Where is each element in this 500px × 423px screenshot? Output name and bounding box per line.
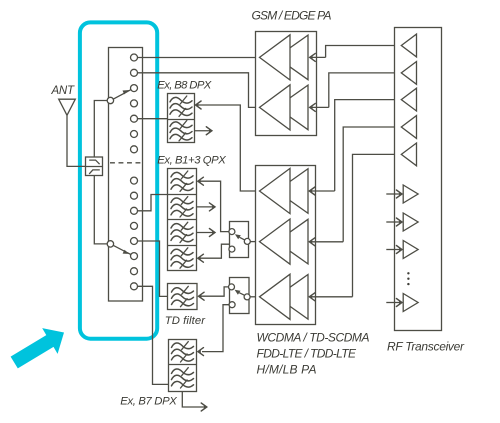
SPDT2 pole contact — [244, 294, 250, 300]
GSM PA box — [256, 32, 317, 136]
cyan highlight arrow — [11, 328, 64, 368]
SPDT1 arm — [235, 234, 245, 240]
svg-text:TD filter: TD filter — [165, 315, 207, 327]
B3 RX output arrow — [196, 229, 215, 237]
wire WCDMA amp1 output to B8 TX — [195, 101, 260, 191]
transceiver RX amp 3 — [386, 241, 418, 259]
lower switch arm — [113, 245, 131, 254]
label WCDMA PA — [257, 331, 370, 377]
wire port1 to GSM amp1 output — [137, 57, 259, 59]
SPDT1 throw2 contact — [229, 246, 235, 252]
diplexer box — [86, 157, 103, 176]
duplexer B8 DPX — [168, 94, 195, 143]
wire SPDT2 throw1 to TD filter — [198, 287, 229, 300]
duplexer B7 DPX — [169, 340, 197, 392]
wire SPDT2 pole to WCDMA amp3 — [250, 296, 260, 298]
transceiver TX buffer 2 — [401, 62, 416, 85]
cyan highlight rounded box around antenna switch — [80, 22, 157, 338]
transceiver RX amp 2 — [386, 213, 418, 231]
WCDMA amp3 input arrow — [309, 293, 353, 301]
B1 RX output arrow — [196, 203, 215, 211]
GSM amp2 — [260, 85, 309, 130]
wire SPDT1 common to B3 TX — [197, 244, 244, 262]
wire transceiver TX2 to GSM amp2 — [329, 73, 402, 108]
WCDMA amp1 input arrow — [309, 187, 335, 195]
switch ports upper — [131, 54, 138, 153]
svg-text:WCDMA / TD-SCDMA: WCDMA / TD-SCDMA — [257, 331, 370, 345]
WCDMA amp2 input arrow — [309, 238, 343, 246]
SPDT switch 1 box — [230, 222, 249, 258]
antenna ANT — [59, 99, 76, 115]
wire port12 to TD filter — [137, 241, 167, 296]
wire diplexer bottom to lower switch pole — [94, 176, 107, 244]
TD filter box — [168, 284, 198, 310]
quadplexer B1+3 QPX — [168, 169, 197, 271]
dashed divider band separator — [110, 162, 142, 164]
ellipsis dots — [407, 272, 409, 285]
wire antenna to diplexer — [67, 116, 85, 167]
WCDMA amp1 — [260, 168, 309, 213]
wire transceiver TX3 to WCDMA amp1 — [335, 100, 402, 191]
RF transceiver box — [395, 28, 442, 331]
wire port5 to B8 DPX common — [137, 118, 167, 120]
WCDMA amp2 — [260, 219, 309, 264]
upper switch arm pivot — [107, 97, 113, 103]
SPDT2 throw2 contact — [229, 302, 235, 308]
svg-text:GSM / EDGE PA: GSM / EDGE PA — [252, 9, 332, 23]
svg-text:H/M/LB PA: H/M/LB PA — [257, 363, 317, 377]
wire SPDT2 throw2 to B7 TX — [202, 305, 229, 352]
svg-text:Ex, B8 DPX: Ex, B8 DPX — [157, 80, 211, 92]
wire transceiver TX5 to WCDMA amp3 — [353, 154, 402, 296]
GSM amp1 input arrow — [309, 53, 325, 61]
wire SPDT1 throw1 to B1 TX — [197, 177, 229, 231]
WCDMA amp3 — [260, 274, 309, 319]
transceiver TX buffer 5 — [401, 143, 416, 166]
SPDT switch 2 box — [230, 278, 250, 314]
transceiver RX amp 1 — [386, 185, 418, 203]
SPDT2 arm — [235, 290, 245, 296]
upper switch arm — [113, 90, 131, 100]
SPDT1 throw1 contact — [229, 229, 235, 235]
transceiver TX buffer 4 — [401, 116, 416, 139]
WCDMA PA box — [256, 166, 316, 325]
B7 RX output arrow — [182, 391, 207, 411]
SPDT2 throw1 contact — [229, 284, 235, 290]
wire port10 to B1+3 QPX common — [137, 195, 167, 211]
transceiver RX amp 4 — [386, 294, 418, 312]
B7 TX input arrow — [197, 348, 203, 356]
wire diplexer top to upper switch pole — [94, 101, 107, 157]
wire SPDT1 pole to WCDMA amp2 — [250, 241, 259, 243]
lower switch arm pivot — [107, 241, 113, 247]
wire port15 to B7 DPX — [137, 286, 168, 384]
antenna switch box — [109, 48, 143, 302]
svg-text:FDD-LTE / TDD-LTE: FDD-LTE / TDD-LTE — [257, 347, 357, 361]
svg-text:RF Transceiver: RF Transceiver — [387, 340, 465, 354]
transceiver TX buffer 3 — [401, 88, 416, 111]
SPDT1 pole contact — [244, 238, 250, 244]
GSM amp1 — [260, 35, 309, 80]
transceiver TX buffer 1 — [401, 34, 416, 57]
B8 RX output arrow — [194, 127, 212, 135]
svg-text:ANT: ANT — [51, 85, 75, 97]
wire transceiver TX1 to GSM amp1 — [326, 46, 402, 58]
svg-text:Ex, B7 DPX: Ex, B7 DPX — [120, 396, 177, 408]
svg-text:Ex, B1+3 QPX: Ex, B1+3 QPX — [157, 155, 226, 167]
wire port2 to GSM amp2 output — [137, 73, 259, 108]
wire transceiver TX4 to WCDMA amp2 — [343, 127, 401, 242]
GSM amp2 input arrow — [309, 103, 329, 111]
switch ports lower — [131, 177, 138, 290]
